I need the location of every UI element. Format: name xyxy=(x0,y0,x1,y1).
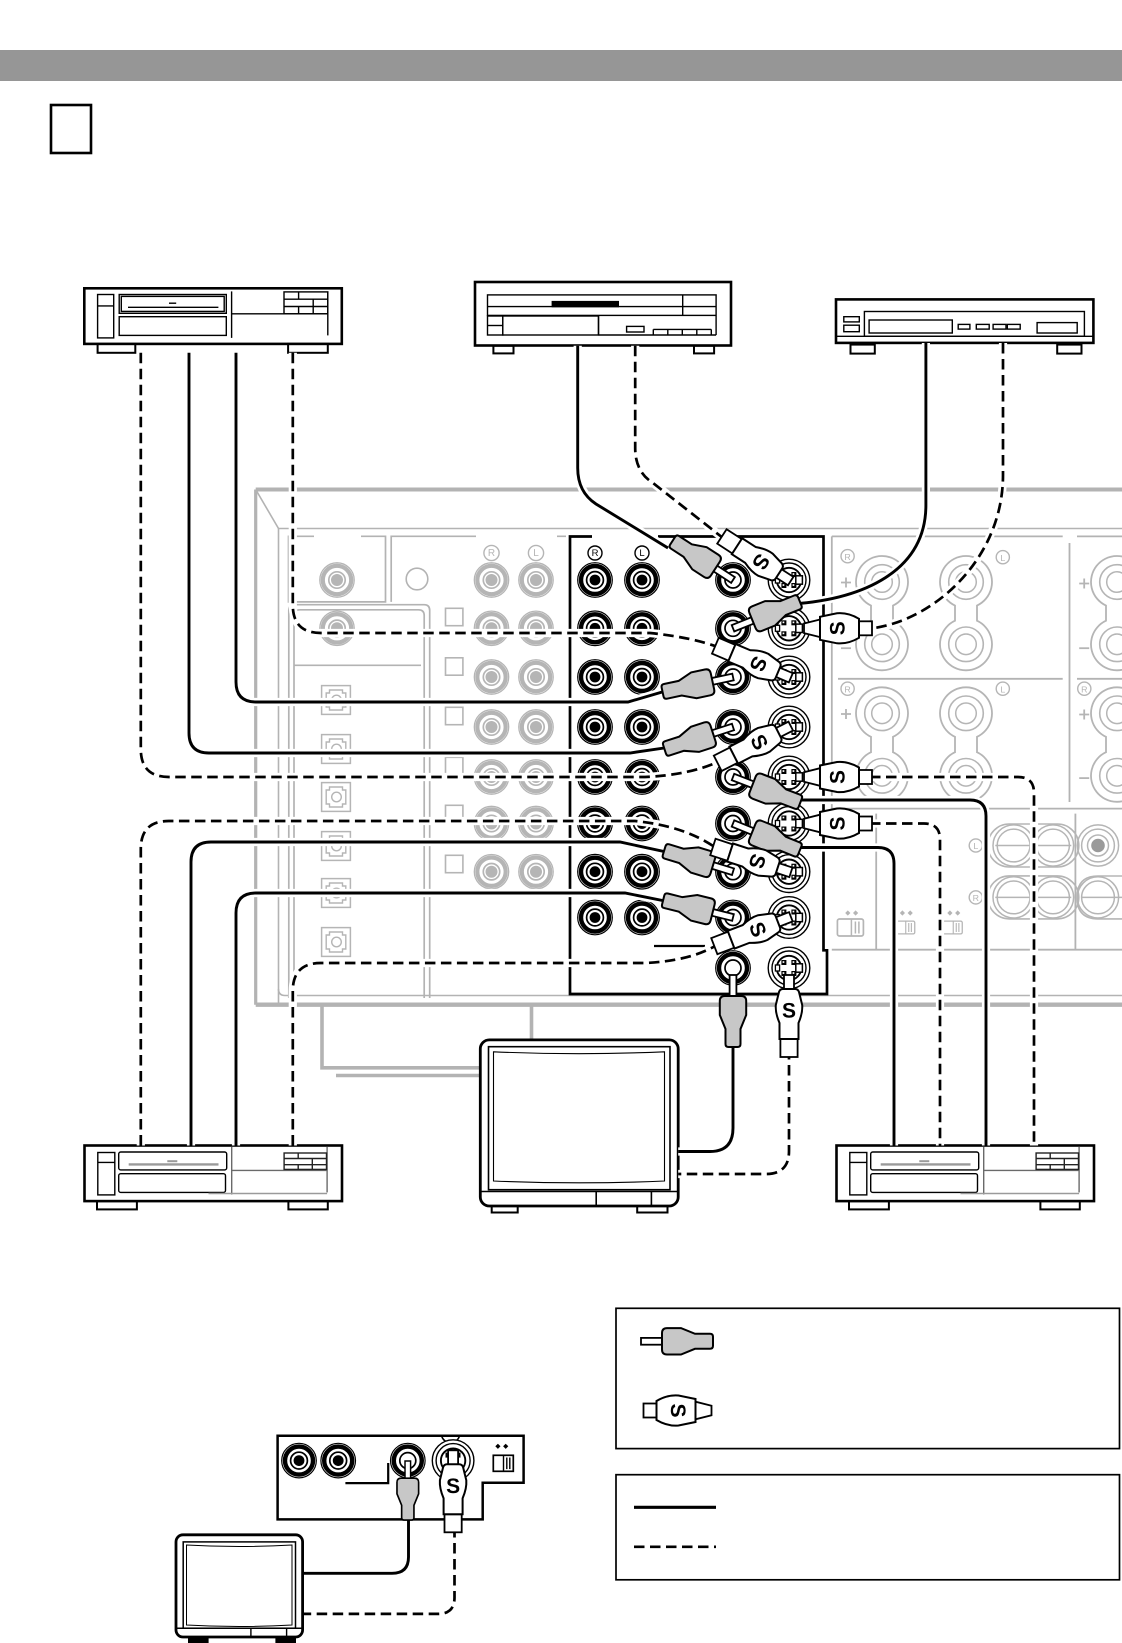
S plug row5 xyxy=(804,762,872,792)
gray RCA jack grid R row2 xyxy=(474,611,508,645)
cable: tuner S-video out (dashed) xyxy=(870,343,1003,629)
gray grid L label xyxy=(528,545,543,560)
callout line xyxy=(654,945,705,947)
preout terminal pair R xyxy=(988,876,1079,919)
panel square 2 xyxy=(446,658,463,675)
mini panel outline xyxy=(278,1436,524,1520)
optical jack 2 xyxy=(322,735,351,764)
gray RCA jack grid L row1 xyxy=(519,563,553,597)
cable: DVD S-video out (dashed) xyxy=(635,346,723,538)
cable: monitor video right (solid) xyxy=(793,800,986,1146)
gray RCA jack grid R row5 xyxy=(474,760,508,794)
audio jack R row7 xyxy=(578,854,613,889)
cable: DVD video out (solid) xyxy=(578,346,668,548)
RCA plug video row1 xyxy=(665,530,740,591)
mini panel notch arc xyxy=(442,1436,460,1443)
gray RCA jack grid R row3 xyxy=(474,660,508,694)
S plug row6 xyxy=(804,808,872,838)
grid section top border xyxy=(391,536,566,602)
S-video jack row1 xyxy=(768,559,810,601)
cable: tuner video out (solid) xyxy=(793,343,926,604)
gray grid R label xyxy=(484,545,499,560)
gray RCA jack grid L row6 xyxy=(519,806,553,840)
svg-text:R: R xyxy=(592,548,599,559)
panel square 4 xyxy=(446,757,463,774)
audio jack R row2 xyxy=(578,611,613,646)
gray RCA jack grid R row1 xyxy=(474,563,508,597)
speaker posts right bottom (clipped) xyxy=(1091,687,1122,801)
speaker posts rear L xyxy=(940,687,992,801)
cable: VCR1 S-video 2 (dashed) xyxy=(141,353,720,777)
audio jack R row4 xyxy=(578,710,613,745)
gray RCA jack grid L row2 xyxy=(519,611,553,645)
svg-text:R: R xyxy=(488,548,495,559)
cable: monitor video right2 (solid) xyxy=(792,848,894,1146)
S-video jack row4 xyxy=(768,706,810,748)
cable: VCR1 S-video (dashed) xyxy=(293,353,718,647)
video jack row4 xyxy=(716,710,751,745)
RCA plug video row6 xyxy=(728,811,805,862)
video jack row9 xyxy=(716,951,751,986)
antenna section box xyxy=(289,536,386,602)
legend dashed line xyxy=(634,1545,716,1548)
S-video jack row6 xyxy=(768,803,810,845)
mini switch xyxy=(493,1455,513,1471)
cable: S right (dashed) xyxy=(870,777,1034,1146)
S-video jack row2 xyxy=(768,608,810,650)
audio jack R row8 xyxy=(578,900,613,935)
gray RCA jack grid L row7 xyxy=(519,855,553,889)
gray RCA jack grid R row4 xyxy=(474,710,508,744)
step number box xyxy=(51,105,91,153)
audio jack L row7 xyxy=(625,854,660,889)
panel square 1 xyxy=(446,608,463,625)
panel hole xyxy=(406,568,428,590)
gray RCA jack left col row2 xyxy=(320,611,354,645)
DVD player xyxy=(475,282,731,353)
video jack row2 xyxy=(716,611,751,646)
mini S-video jack xyxy=(432,1440,474,1482)
speaker posts front R xyxy=(856,556,908,670)
legend box: plugs xyxy=(616,1308,1120,1448)
audio jack L row8 xyxy=(625,900,660,935)
audio jack R row3 xyxy=(578,660,613,695)
S plug row1 xyxy=(715,525,798,592)
subwoofer jack xyxy=(1077,825,1118,866)
cable: VCR1 audio (solid) xyxy=(189,353,671,753)
S-video jack row8 xyxy=(768,897,810,939)
audio jack R row1 xyxy=(578,563,613,598)
audio jack L row5 xyxy=(625,760,660,795)
legend S plug icon xyxy=(644,1395,712,1425)
video jack row6 xyxy=(716,806,751,841)
gray RCA jack grid R row7 xyxy=(474,855,508,889)
VCR bottom-left xyxy=(85,1146,343,1210)
RCA plug video row7 xyxy=(660,838,737,884)
speaker section borders xyxy=(832,536,1122,949)
right terminal (clipped) xyxy=(1077,876,1122,919)
optical jack 1 xyxy=(322,686,351,715)
panel square 3 xyxy=(446,707,463,724)
S-video jack row5 xyxy=(768,756,810,798)
black R label xyxy=(588,546,602,560)
svg-text:L: L xyxy=(1000,684,1005,694)
S plug row7 xyxy=(709,834,795,885)
receiver pedestal xyxy=(322,1006,532,1076)
VCR top-left xyxy=(84,288,342,353)
optical jack 6 xyxy=(322,928,351,957)
cable: VCR2 S-video (dashed) xyxy=(141,821,716,1146)
RCA plug video row5 xyxy=(728,765,805,815)
svg-text:R: R xyxy=(973,893,979,903)
audio jack L row3 xyxy=(625,660,660,695)
switch 3 xyxy=(943,921,963,934)
RCA plug video row4 xyxy=(660,714,737,761)
VCR bottom-right xyxy=(837,1146,1095,1210)
audio jack L row6 xyxy=(625,806,660,841)
svg-text:L: L xyxy=(1000,553,1005,563)
svg-text:L: L xyxy=(533,548,539,559)
S plug row2 xyxy=(804,613,872,643)
mini S plug (vertical) xyxy=(440,1450,467,1532)
audio jack L row1 xyxy=(625,563,660,598)
optical jack 4 xyxy=(322,832,351,861)
legend RCA plug icon xyxy=(641,1328,713,1354)
audio jack R row6 xyxy=(578,806,613,841)
RCA plug video row3 xyxy=(660,664,736,705)
cable: VCR1 video (solid) xyxy=(236,353,669,702)
S-video jack row7 xyxy=(768,851,810,893)
cable: VCR2 video (solid) xyxy=(191,842,671,1146)
S-video jack row3 xyxy=(768,656,810,698)
S plug row3 xyxy=(710,634,796,690)
header bar xyxy=(0,50,1122,81)
RCA plug video row9 (to TV) xyxy=(720,975,746,1047)
cable: VCR2 audio (solid) xyxy=(236,893,670,1146)
highlighted AV section bracket xyxy=(570,537,827,995)
preout terminal pair L xyxy=(988,824,1079,867)
gray RCA jack grid L row5 xyxy=(519,760,553,794)
black L label xyxy=(635,546,649,560)
cable: TV S-video (dashed) xyxy=(678,1049,789,1174)
S plug row4 xyxy=(712,714,797,775)
speaker posts right top (clipped) xyxy=(1091,556,1122,670)
video jack row1 xyxy=(716,563,751,598)
RCA plug video row2 xyxy=(728,589,805,640)
optical section box xyxy=(289,605,430,998)
mini audio jack R xyxy=(282,1443,317,1478)
preout L label xyxy=(969,839,982,852)
audio jack L row2 xyxy=(625,611,660,646)
S-video jack row9 xyxy=(768,947,810,989)
panel square 5 xyxy=(446,805,463,822)
mini TV cables xyxy=(303,1517,409,1573)
audio jack L row4 xyxy=(625,710,660,745)
switch 2 xyxy=(895,921,915,934)
tuner top-right xyxy=(836,299,1093,353)
legend box: lines xyxy=(616,1475,1120,1580)
mini video jack xyxy=(391,1443,426,1478)
cable: TV video (solid) xyxy=(678,1040,733,1152)
optical jack 5 xyxy=(322,879,351,908)
video jack row7 xyxy=(716,854,751,889)
svg-text:R: R xyxy=(844,684,850,694)
switch 1 xyxy=(837,910,863,936)
video jack row5 xyxy=(716,760,751,795)
cable: S right2 (dashed) xyxy=(870,824,940,1146)
legend solid line xyxy=(634,1506,716,1509)
preout R label xyxy=(969,891,982,904)
speaker posts rear R xyxy=(856,687,908,801)
svg-text:L: L xyxy=(973,841,978,851)
speaker posts front L xyxy=(940,556,992,670)
gray RCA jack grid L row3 xyxy=(519,660,553,694)
cable: VCR2 S-video 2 (dashed) xyxy=(293,945,717,1146)
mini TV xyxy=(176,1535,303,1643)
svg-text:L: L xyxy=(639,548,644,559)
video jack row8 xyxy=(716,900,751,935)
svg-text:R: R xyxy=(844,552,850,562)
gray RCA jack grid L row4 xyxy=(519,710,553,744)
audio jack R row5 xyxy=(578,760,613,795)
mini RCA plug (vertical) xyxy=(397,1461,419,1520)
svg-text:R: R xyxy=(1081,684,1087,694)
gray RCA jack grid R row6 xyxy=(474,806,508,840)
optical jack 3 xyxy=(322,783,351,812)
receiver back panel outline xyxy=(256,490,1122,1005)
panel square 6 xyxy=(446,855,463,872)
antenna RCA jack xyxy=(320,563,354,597)
mini audio jack L xyxy=(321,1443,356,1478)
mini callout line xyxy=(345,1463,388,1483)
S plug row9 (to TV) xyxy=(776,975,803,1057)
video jack row3 xyxy=(716,660,751,695)
TV monitor xyxy=(480,1040,678,1213)
S plug row8 xyxy=(710,904,796,958)
speaker labels xyxy=(841,550,1091,778)
RCA plug video row8 xyxy=(660,887,736,930)
